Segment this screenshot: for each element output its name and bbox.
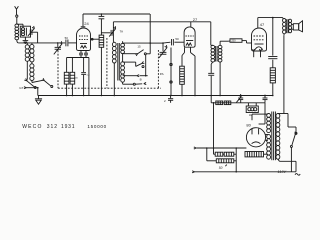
svg-text:50: 50 [175,37,179,41]
svg-text:47: 47 [260,22,265,27]
svg-text:WECO: WECO [22,124,42,130]
svg-text:3w: 3w [249,113,254,117]
svg-text:B: B [140,78,142,82]
svg-text:15: 15 [137,45,141,49]
svg-text:110V: 110V [278,170,287,174]
svg-text:27: 27 [193,17,198,22]
svg-text:1931: 1931 [61,124,75,130]
svg-text:50: 50 [65,36,69,40]
svg-text:GT: GT [19,86,23,90]
svg-text:PA: PA [160,72,164,76]
svg-text:2: 2 [164,99,166,103]
svg-text:50: 50 [219,166,223,170]
svg-text:500: 500 [74,78,78,80]
svg-text:312: 312 [47,124,58,130]
svg-text:TA: TA [120,29,124,33]
svg-text:150000: 150000 [87,124,107,129]
svg-text:24: 24 [84,21,89,26]
svg-text:250: 250 [231,39,236,43]
svg-text:80: 80 [246,123,251,128]
